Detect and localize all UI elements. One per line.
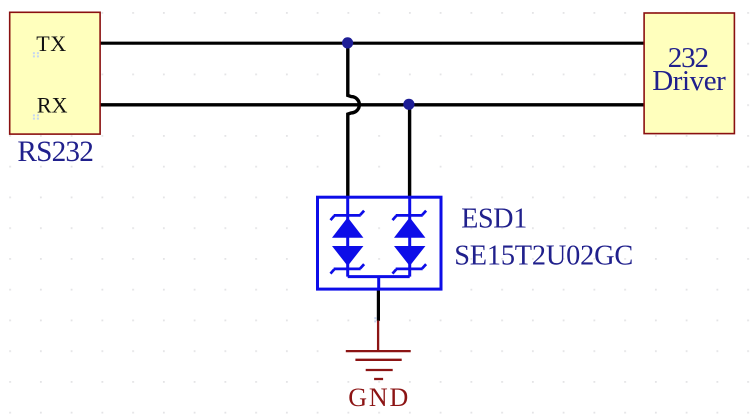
svg-text:ESD1: ESD1 [461,203,527,234]
svg-text:RS232: RS232 [17,136,94,168]
svg-text:RX: RX [37,93,68,118]
svg-text:Driver: Driver [652,65,726,97]
svg-text:TX: TX [36,31,66,56]
svg-text:SE15T2U02GC: SE15T2U02GC [454,241,633,272]
svg-text:GND: GND [348,383,408,412]
